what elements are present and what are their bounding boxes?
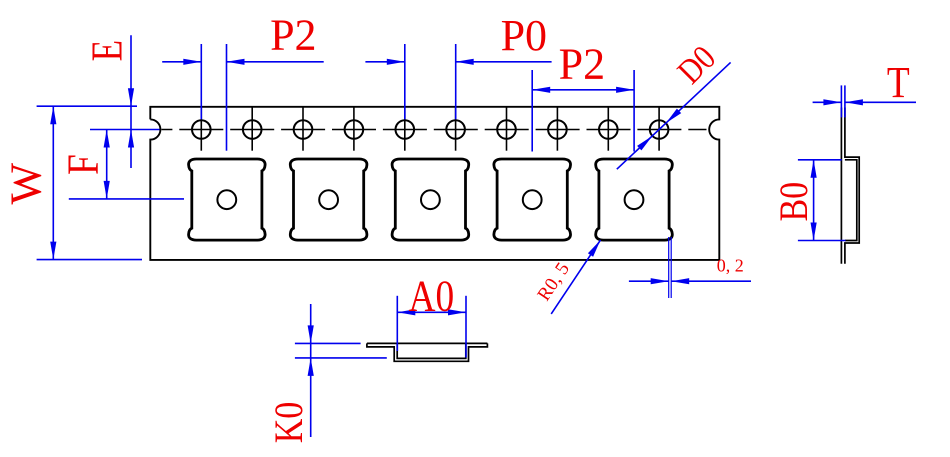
dimension P0 extension lines (404, 44, 406, 119)
dimension B0 line with arrows (813, 160, 815, 241)
dimension W extension line bottom (37, 259, 142, 261)
dimension 0,2 extension lines (668, 237, 670, 298)
dimension K0 extension lines (295, 342, 361, 344)
tape side view profile (841, 108, 859, 264)
dimension A0 line with arrows (397, 311, 466, 313)
sprocket hole 9 (599, 107, 618, 151)
sprocket hole 5 (396, 107, 415, 151)
svg-text:P2: P2 (559, 39, 605, 88)
pocket 2 (290, 159, 367, 240)
pocket 1 center hole (217, 190, 236, 209)
dimension T line with arrows (813, 101, 842, 103)
dimension P2 second extension lines (531, 70, 533, 152)
pocket 1 (189, 159, 266, 240)
pocket 2 center hole (319, 190, 338, 209)
svg-text:P0: P0 (501, 11, 547, 60)
dimension F line with arrows (106, 130, 108, 199)
dimension R0,5 leader line with arrow (551, 240, 600, 314)
dimension W extension line top (37, 105, 137, 107)
sprocket row extension line (90, 129, 160, 131)
svg-text:B0: B0 (772, 182, 816, 222)
sprocket hole centerline (162, 129, 707, 131)
svg-text:R0, 5: R0, 5 (533, 259, 573, 305)
svg-text:P2: P2 (270, 11, 316, 60)
pocket 4 center hole (523, 190, 542, 209)
pocket 3 (392, 159, 469, 240)
dimension K0 line with arrows (310, 304, 312, 437)
pocket cross-section view (367, 343, 488, 361)
dimension B0 extension lines (798, 159, 842, 161)
dimension P2 second line with arrows (532, 89, 634, 91)
pocket 5 center hole (625, 190, 644, 209)
sprocket hole 4 (345, 107, 364, 151)
dimension F extension line bottom (69, 198, 184, 200)
sprocket hole 6 (446, 107, 465, 151)
pocket 5 (596, 159, 673, 240)
sprocket hole 8 (548, 107, 567, 151)
sprocket hole 3 (294, 107, 313, 151)
pocket 4 (494, 159, 571, 240)
dimension D0 leader line with arrows (617, 62, 731, 169)
svg-text:0, 2: 0, 2 (717, 256, 744, 276)
dimension P2 first line with arrows (162, 61, 201, 63)
dimension T extension lines (840, 85, 842, 117)
dimension P2 first extension lines (200, 44, 202, 119)
sprocket hole 7 (497, 107, 516, 151)
sprocket hole 2 (243, 107, 262, 151)
dimension A0 extension lines (396, 296, 398, 351)
svg-text:D0: D0 (670, 39, 723, 92)
carrier tape top view outline (150, 107, 719, 260)
dimension W line with arrows (52, 106, 54, 259)
sprocket hole 10 (650, 107, 669, 151)
svg-text:E: E (82, 40, 132, 62)
svg-text:T: T (887, 58, 910, 106)
svg-text:K0: K0 (268, 402, 312, 444)
dimension P0 line with arrows (365, 61, 404, 63)
pocket 3 center hole (421, 190, 440, 209)
sprocket hole 1 (192, 107, 211, 151)
svg-text:F: F (59, 154, 107, 175)
svg-text:W: W (2, 162, 51, 204)
svg-text:A0: A0 (409, 272, 455, 320)
dimension E line with arrows (130, 35, 132, 168)
dimension 0,2 line with arrows (629, 280, 669, 282)
